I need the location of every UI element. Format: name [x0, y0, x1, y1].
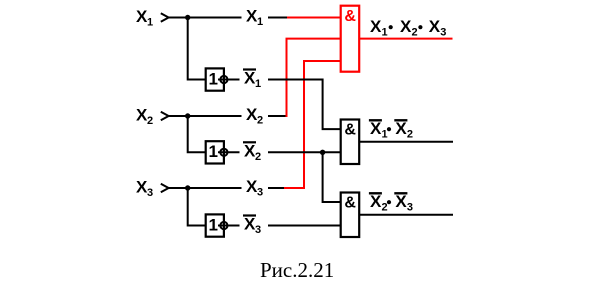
inverter DD1 (1 with bubble) — [206, 68, 228, 90]
wire X1bar to AND2 top input — [268, 80, 341, 130]
wire inverter 1 output stub — [218, 79, 240, 81]
node junction X2 — [185, 113, 190, 118]
wire X2 drop to inverter 2 — [188, 116, 206, 152]
svg-text:X: X — [395, 119, 407, 138]
svg-text:2: 2 — [257, 115, 263, 127]
svg-text:1: 1 — [382, 27, 388, 39]
svg-text:3: 3 — [147, 187, 153, 199]
svg-text:X: X — [429, 17, 441, 36]
svg-text:2: 2 — [407, 129, 413, 141]
wire red AND1 output — [359, 38, 452, 40]
svg-text:2: 2 — [255, 151, 261, 163]
svg-text:&: & — [344, 195, 356, 212]
inverter DD3 (1 with bubble) — [206, 214, 228, 236]
node label X2 wire tag — [246, 105, 263, 127]
wire X3bar to AND3 bottom input — [268, 225, 341, 227]
node junction X2bar — [320, 150, 325, 155]
wire X2 input to label — [169, 115, 242, 117]
wire X3 label to red — [268, 187, 284, 189]
wire X3 drop to inverter 3 — [188, 188, 206, 226]
input label X2 — [136, 105, 153, 127]
wire red X1 to AND1 input 1 — [287, 17, 341, 19]
svg-text:2: 2 — [382, 202, 388, 214]
wire X2bar to AND2 bottom input — [268, 151, 341, 153]
wire X2 label to red elbow — [268, 115, 286, 117]
svg-text:1: 1 — [382, 129, 388, 141]
svg-text:3: 3 — [407, 202, 413, 214]
wire AND3 output — [359, 214, 453, 216]
wire AND2 output — [359, 141, 453, 143]
node label output X1·X2·X3 — [370, 17, 446, 39]
wire inverter 2 output stub — [218, 151, 240, 153]
svg-text:3: 3 — [255, 224, 261, 236]
input arrow X1 — [161, 13, 169, 22]
svg-text:1: 1 — [209, 215, 218, 234]
AND gate DD5 (middle) — [341, 120, 360, 165]
svg-text:Рис.2.21: Рис.2.21 — [260, 258, 334, 281]
wire X1 label to red — [268, 17, 287, 19]
svg-text:&: & — [344, 8, 356, 25]
svg-text:X: X — [370, 192, 382, 211]
input label X3 — [136, 177, 153, 199]
node label X3 wire tag — [246, 177, 263, 199]
input label X1 — [136, 7, 153, 29]
svg-text:2: 2 — [412, 27, 418, 39]
svg-text:1: 1 — [147, 16, 153, 28]
node label output X1bar·X2bar — [369, 119, 413, 141]
input arrow X3 — [161, 184, 169, 193]
node junction X3 — [185, 185, 190, 190]
wire red X3 to AND1 input 3 — [284, 61, 341, 188]
svg-text:X: X — [370, 17, 382, 36]
svg-text:2: 2 — [147, 115, 153, 127]
svg-text:X: X — [400, 17, 412, 36]
svg-text:1: 1 — [209, 69, 218, 88]
svg-text:X: X — [395, 192, 407, 211]
wire inverter 3 output stub — [218, 225, 240, 227]
AND gate DD4 (red, top) — [341, 6, 360, 72]
svg-text:1: 1 — [255, 78, 261, 90]
AND gate DD6 (bottom) — [341, 193, 360, 238]
wire X1 input to label — [169, 17, 242, 19]
svg-text:1: 1 — [257, 16, 263, 28]
node label X1bar — [243, 69, 261, 91]
svg-text:3: 3 — [257, 187, 263, 199]
svg-text:&: & — [344, 122, 356, 139]
wire X3 input to label — [169, 187, 242, 189]
inverter DD2 (1 with bubble) — [206, 141, 228, 163]
node label X2bar — [243, 141, 261, 163]
wire red X2 to AND1 input 2 — [286, 39, 341, 116]
node label X3bar — [243, 215, 261, 237]
wire X2bar junction to AND3 top input — [323, 152, 341, 202]
wire X1 drop to inverter 1 — [188, 18, 206, 80]
node label X1 wire tag — [246, 7, 263, 29]
svg-text:1: 1 — [209, 142, 218, 161]
input arrow X2 — [161, 112, 169, 121]
svg-text:3: 3 — [440, 27, 446, 39]
svg-text:X: X — [370, 119, 382, 138]
node junction X1 — [185, 15, 190, 20]
node label output X2bar·X3bar — [369, 192, 413, 214]
